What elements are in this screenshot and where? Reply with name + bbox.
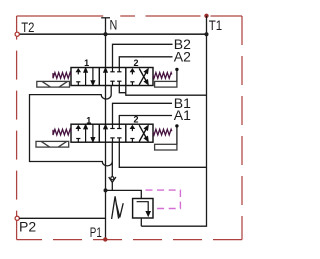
port T1 dot xyxy=(204,14,208,18)
check valve ball xyxy=(111,177,114,180)
wire T1 vertical down right side xyxy=(141,16,206,226)
V1 centre box: open-centre arrow and blocked ports xyxy=(104,68,122,86)
wire V2 tank return right xyxy=(119,142,206,167)
V2 centre box: open-centre arrow and blocked ports xyxy=(104,124,122,142)
V2 right return spring xyxy=(153,129,172,135)
svg-text:A2: A2 xyxy=(174,49,191,65)
V1 left return spring xyxy=(53,73,71,79)
V2 positioner pin xyxy=(176,127,178,144)
port P2 ring xyxy=(15,216,19,220)
V1 hand lever xyxy=(37,81,70,87)
wire A1 xyxy=(119,116,172,125)
relief valve RV1 body xyxy=(133,199,153,219)
RV1 adjustable spring xyxy=(112,196,124,219)
wire B1 xyxy=(113,103,173,124)
wire N down to valve V1 xyxy=(105,34,107,67)
RV1 internal flow arrow xyxy=(137,202,151,216)
valve V2 spool boxes xyxy=(71,124,153,142)
enclosure dashed red border xyxy=(17,16,242,240)
wire relief inlet xyxy=(106,190,142,198)
V2 right box: blocked stubs and crossed arrows xyxy=(130,125,148,142)
V2 positioner box xyxy=(155,144,177,150)
check valve seat xyxy=(109,177,116,182)
wire P2 xyxy=(19,217,105,219)
wire B2 xyxy=(113,44,173,67)
svg-text:N: N xyxy=(110,16,118,32)
wire relief outlet to tank xyxy=(140,218,142,226)
wire V1 tank return right xyxy=(119,86,126,93)
node N junction xyxy=(103,32,107,36)
V1 right return spring xyxy=(153,73,172,79)
svg-text:2: 2 xyxy=(133,58,138,68)
svg-text:1: 1 xyxy=(86,115,91,125)
wire A2 xyxy=(119,57,172,68)
svg-text:A1: A1 xyxy=(174,107,191,123)
V2 hand lever xyxy=(36,141,69,147)
wire P carryover V1 to V2 xyxy=(105,86,107,125)
port P1 dot xyxy=(103,237,107,241)
V1 positioner box xyxy=(155,81,177,87)
svg-text:P1: P1 xyxy=(90,224,102,240)
wire P down from V2 xyxy=(105,142,107,239)
svg-text:2: 2 xyxy=(133,115,138,125)
check valve line from V2 xyxy=(111,142,113,176)
V1 right box: blocked stubs and crossed arrows xyxy=(130,69,148,86)
svg-text:1: 1 xyxy=(84,58,89,68)
svg-text:T1: T1 xyxy=(209,17,223,33)
valve V1 spool boxes xyxy=(71,68,153,86)
svg-text:P2: P2 xyxy=(19,219,36,235)
svg-text:T2: T2 xyxy=(21,19,34,35)
node T1 header junction xyxy=(205,32,209,36)
port N cap xyxy=(101,18,110,34)
wire V1 tank return left with crossover hop xyxy=(30,86,113,166)
port T2 ring xyxy=(15,32,19,36)
node pump junction xyxy=(104,188,108,192)
pilot line (dashed magenta) xyxy=(146,190,181,208)
V2 left box arrows xyxy=(76,124,94,142)
V1 left box arrows xyxy=(76,68,94,86)
wire tank header T2-T1 xyxy=(19,33,206,35)
V1 positioner pin xyxy=(176,70,178,81)
V2 left return spring xyxy=(53,129,71,135)
